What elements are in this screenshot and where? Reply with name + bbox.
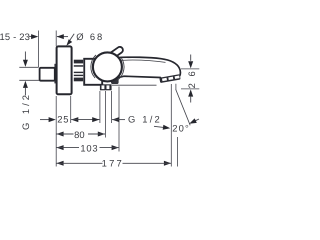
svg-text:G 1/2: G 1/2 — [128, 113, 162, 124]
svg-text:15 - 23: 15 - 23 — [0, 31, 30, 42]
svg-text:20°: 20° — [172, 123, 190, 134]
svg-text:177: 177 — [102, 158, 124, 169]
svg-text:2 6: 2 6 — [186, 69, 197, 88]
svg-text:103: 103 — [80, 142, 98, 153]
svg-text:25: 25 — [57, 114, 69, 125]
svg-text:80: 80 — [74, 129, 85, 140]
svg-text:Ø 68: Ø 68 — [76, 31, 104, 42]
svg-text:G 1/2: G 1/2 — [20, 92, 31, 130]
